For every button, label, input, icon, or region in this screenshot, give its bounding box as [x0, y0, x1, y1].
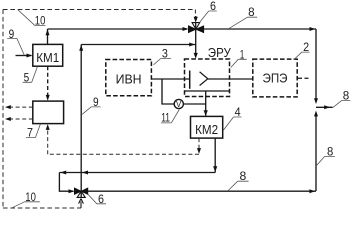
wire: right vertical (upper part) with down arrow: [315, 29, 317, 100]
valve 6 (bottom): left and right filled triangles, bottom outlined triangle: [74, 188, 81, 194]
wire: bottom line 8 from valve to right riser: [88, 190, 316, 192]
box KM1: [33, 44, 63, 66]
block IVN (dashed box): [106, 60, 152, 96]
wire: input 9 into KM1: [16, 55, 32, 57]
wire: valve 6 center vertical through symbol: [195, 23, 197, 30]
dashed control: box 7 outputs to the left (lower): [9, 118, 33, 120]
wire: valve 6 (bottom) center vertical through symbol: [80, 191, 82, 197]
svg-text:V: V: [176, 100, 182, 109]
wire: top line 8 from valve 6 to right corner: [204, 28, 316, 30]
wire: top line 8 from KM1 riser to valve 6: [48, 28, 188, 30]
wire: dashed drop from enclosure top into valve 6 (top): [194, 10, 196, 17]
svg-text:ИВН: ИВН: [116, 72, 142, 87]
wire: ERU bottom to KM2 with down arrow: [205, 91, 207, 116]
block EPE (dashed box): [253, 59, 297, 97]
dashed control: KM1 down to box 7: [47, 66, 49, 96]
dashed control: box 7 outputs to the left (upper): [9, 106, 33, 108]
voltmeter 11: [174, 99, 183, 108]
wire: riser from enclosure bottom into valve 6 (bottom), open arrowhead: [80, 202, 82, 209]
box 7 (unlabeled): [33, 101, 64, 124]
enclosure border 10 (dashed object boundary, top edge): [3, 9, 195, 11]
wire: ERU output to EPE: [208, 78, 253, 80]
wire: return corner down and into valve 6 (bottom): [59, 173, 73, 192]
ERU input plate: [189, 71, 191, 89]
enclosure border 10 (left edge): [2, 10, 4, 209]
ERU inner solid bottom line: [185, 90, 230, 92]
svg-text:КМ1: КМ1: [36, 50, 59, 65]
block ERU (dashed box): [185, 59, 230, 97]
wire: KM1 top to line 8: [47, 29, 49, 44]
EPE mechanical output stub (dashed): [297, 77, 308, 79]
svg-text:8: 8: [327, 147, 333, 159]
dashed control: KM2 return to box 7: [198, 138, 200, 149]
wire: right vertical (lower part) with up arrow: [315, 115, 317, 192]
wire: voltmeter to KM2 drop: [183, 103, 206, 105]
ERU amplifier chevron: [200, 72, 208, 86]
svg-text:ЭРУ: ЭРУ: [208, 45, 232, 60]
wire: feedback riser 9 with up arrow, corner to the right: [80, 45, 82, 192]
enclosure border 10 (bottom edge): [3, 207, 81, 209]
wire: KM2 output down then left (long return): [214, 138, 216, 172]
svg-text:КМ2: КМ2: [195, 122, 218, 137]
wire: branch to voltmeter 11: [162, 79, 174, 104]
box KM2: [191, 116, 223, 138]
svg-text:ЭПЭ: ЭПЭ: [263, 71, 288, 86]
svg-text:9: 9: [9, 29, 15, 41]
wire: IVN output to ERU plate: [151, 78, 189, 80]
wire: mid line from feedback corner to valve drop: [81, 44, 195, 46]
valve 6 (top): left and right filled triangles, top outlined triangle: [188, 26, 196, 33]
wire: exit arrow to the right at convergence: [316, 106, 333, 108]
wire: valve 6 down into ERU: [195, 29, 197, 53]
